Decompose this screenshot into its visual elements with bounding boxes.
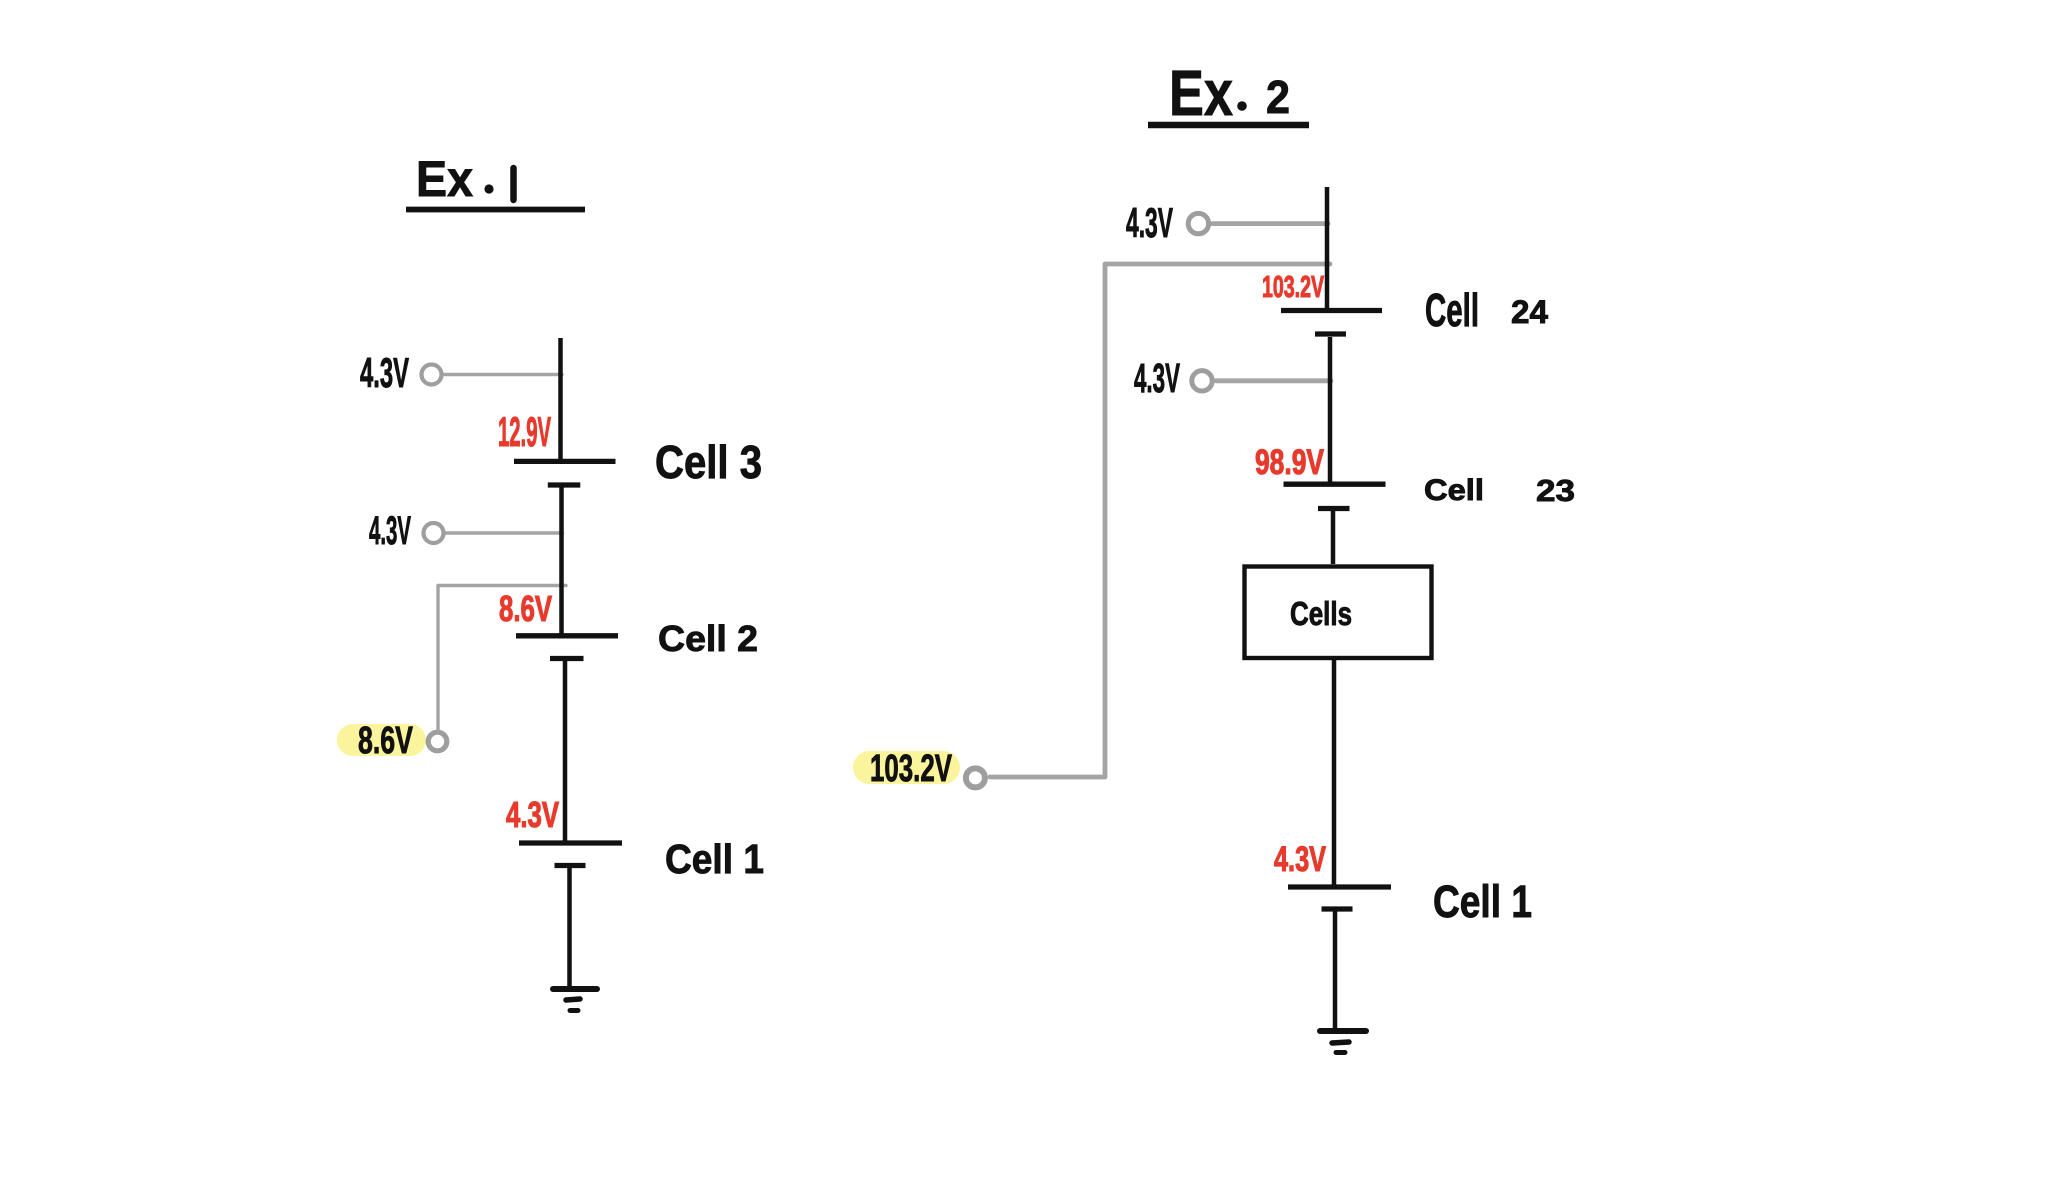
svg-text:8.6V: 8.6V	[499, 588, 552, 629]
svg-text:4.3V: 4.3V	[1274, 840, 1326, 879]
svg-text:4.3V: 4.3V	[506, 794, 559, 835]
node 4.3V terminal (Ex.2 top)	[1126, 199, 1209, 246]
svg-text:Cell 1: Cell 1	[665, 836, 764, 882]
ground Ex.1	[553, 989, 597, 1011]
svg-text:Ex: Ex	[416, 151, 473, 207]
block Cells (collapsed cells 2..22)	[1245, 567, 1432, 659]
node 8.6V terminal	[337, 720, 447, 762]
svg-text:4.3V: 4.3V	[369, 509, 411, 553]
title Ex.1	[406, 151, 585, 210]
wire gray tap to Ex.1 middle node	[445, 531, 563, 534]
label Cell 24	[1425, 284, 1548, 336]
wire Cell 1 to ground (Ex.2)	[1333, 911, 1338, 1029]
node 4.3V terminal (Ex.1 middle)	[369, 509, 444, 553]
wire gray tap to Ex.1 top node	[443, 373, 562, 376]
wire Cell 1 to ground	[567, 868, 572, 987]
wire between Cell 24 and Cell 23	[1328, 337, 1333, 482]
svg-text:Cells: Cells	[1290, 595, 1352, 632]
label Cell 23	[1424, 473, 1575, 508]
svg-text:Cell 1: Cell 1	[1433, 876, 1532, 927]
svg-text:4.3V: 4.3V	[360, 349, 409, 396]
svg-text:103.2V: 103.2V	[1262, 269, 1324, 304]
wire top of stack Ex.1	[558, 338, 563, 460]
ground Ex.2	[1320, 1031, 1366, 1053]
battery Cell 23	[1284, 484, 1386, 508]
svg-text:24: 24	[1511, 294, 1548, 330]
svg-text:2: 2	[1266, 71, 1290, 123]
node 103.2V terminal	[853, 748, 985, 790]
wire between Cells box and Cell 1	[1332, 659, 1337, 885]
svg-text:Cell: Cell	[1424, 474, 1484, 507]
svg-text:23: 23	[1536, 473, 1575, 508]
battery Cell 24	[1281, 311, 1382, 335]
svg-text:Cell 3: Cell 3	[655, 436, 762, 488]
node 4.3V terminal (Ex.1 top)	[360, 349, 442, 396]
wire top of stack Ex.2	[1325, 187, 1330, 308]
svg-text:8.6V: 8.6V	[358, 720, 413, 762]
wire between Cell 3 and Cell 2	[559, 487, 564, 634]
battery Cell 2	[516, 636, 618, 659]
svg-text:4.3V: 4.3V	[1126, 199, 1173, 246]
battery Cell 3	[514, 461, 616, 485]
node 4.3V terminal (Ex.2 middle)	[1134, 355, 1212, 401]
svg-text:Cell: Cell	[1425, 284, 1479, 336]
title Ex.2	[1148, 57, 1309, 129]
wire between Cell 23 and Cells box	[1331, 511, 1336, 564]
wire gray tap to Ex.2 middle node	[1216, 378, 1331, 383]
svg-text:Ex: Ex	[1169, 57, 1233, 129]
battery Cell 1	[519, 843, 622, 866]
svg-text:4.3V: 4.3V	[1134, 355, 1180, 401]
wire gray tap to Ex.2 top node	[1212, 221, 1328, 226]
svg-text:98.9V: 98.9V	[1255, 443, 1324, 482]
svg-text:12.9V: 12.9V	[498, 408, 551, 455]
wire gray elbow to 8.6V terminal	[438, 586, 566, 730]
wire gray elbow to 103.2V terminal	[990, 264, 1330, 777]
battery Cell 1 (Ex.2)	[1288, 887, 1391, 909]
svg-text:103.2V: 103.2V	[870, 748, 952, 790]
wire between Cell 2 and Cell 1	[563, 661, 568, 841]
svg-text:Cell 2: Cell 2	[658, 618, 758, 659]
